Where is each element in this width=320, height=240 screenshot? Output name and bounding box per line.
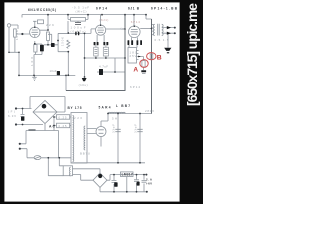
svg-text:B: B <box>157 54 162 61</box>
svg-text:LM317: LM317 <box>122 173 133 177</box>
svg-text:6P14: 6P14 <box>130 85 140 89</box>
svg-text:(10u): (10u) <box>79 83 88 87</box>
svg-text:33uF: 33uF <box>134 124 138 133</box>
svg-text:6N1/ECC85(S): 6N1/ECC85(S) <box>28 8 56 12</box>
svg-text:280V: 280V <box>145 109 154 113</box>
svg-text:220: 220 <box>74 116 82 120</box>
svg-text:150K: 150K <box>60 37 64 46</box>
svg-text:A: A <box>133 66 138 73</box>
svg-text:(g): (g) <box>121 26 126 30</box>
svg-text:0.5 1.5: 0.5 1.5 <box>155 38 169 42</box>
svg-text:[650x715] upic.me: [650x715] upic.me <box>185 3 200 106</box>
svg-text:5H: 5H <box>112 117 117 121</box>
svg-text:6J1 B: 6J1 B <box>128 6 140 10</box>
svg-text:BB7U: BB7U <box>80 151 90 155</box>
svg-text:0.25: 0.25 <box>59 124 67 128</box>
svg-text:25V: 25V <box>130 54 137 58</box>
svg-text:22K: 22K <box>46 23 54 27</box>
svg-text:+6V: +6V <box>146 181 152 185</box>
svg-text:6P14: 6P14 <box>96 6 107 10</box>
svg-text:4.7uF: 4.7uF <box>99 65 108 69</box>
svg-text:(6J1): (6J1) <box>99 18 108 22</box>
svg-text:100: 100 <box>30 57 34 66</box>
svg-text:6.3V: 6.3V <box>8 114 16 118</box>
svg-text:0.25: 0.25 <box>59 115 67 119</box>
svg-text:AC: AC <box>49 125 56 129</box>
svg-text:(0.47u): (0.47u) <box>71 29 86 33</box>
svg-text:33uF: 33uF <box>112 124 116 133</box>
svg-text:(W+C): (W+C) <box>76 9 87 13</box>
svg-text:L BB7: L BB7 <box>116 104 130 108</box>
svg-text:100K: 100K <box>15 30 19 40</box>
svg-text:10uF: 10uF <box>50 69 57 73</box>
svg-text:BY 175: BY 175 <box>68 106 82 110</box>
svg-text:6P14: 6P14 <box>131 20 140 24</box>
